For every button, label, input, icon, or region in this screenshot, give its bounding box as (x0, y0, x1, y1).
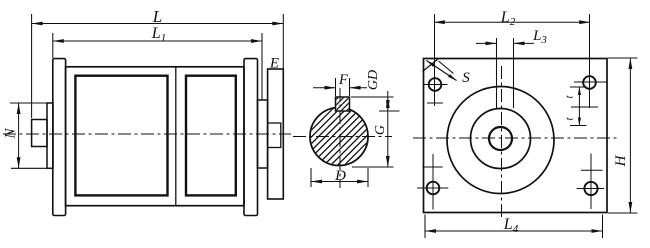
svg-text:G: G (373, 125, 388, 135)
right bearing hub (258, 100, 268, 168)
bore step dimension ticks t (570, 87, 587, 126)
svg-text:N: N (3, 128, 19, 140)
dimension H extension lines (608, 58, 638, 213)
spigot circle (large) (447, 87, 554, 194)
centerline of left view (3, 133, 291, 135)
motor body outline (66, 67, 244, 206)
shaft section centerlines (293, 88, 392, 188)
left shaft stub (32, 120, 47, 147)
svg-text:S: S (462, 70, 470, 86)
svg-text:t: t (564, 95, 576, 99)
keyway on shaft (width F) (323, 68, 363, 140)
dimension D extension lines (311, 168, 368, 187)
dimension N extension lines (10, 103, 52, 168)
dimension D (311, 168, 368, 184)
dimension L2 (434, 9, 590, 28)
dimension L1 extension lines (53, 33, 262, 100)
rear shaft stub through disc (268, 123, 281, 148)
dimension L extension lines (32, 14, 284, 118)
dimension L4 extension lines (425, 215, 603, 239)
corner chamfer line (423, 59, 439, 72)
left end-bracket column (53, 59, 66, 216)
dimension H (613, 58, 632, 213)
svg-text:E: E (269, 56, 279, 72)
svg-text:L2: L2 (500, 9, 516, 28)
dimension L3 extension lines (497, 38, 514, 108)
right stator panel (186, 76, 236, 196)
left stator panel (75, 76, 167, 196)
left bearing hub (diameter N) (47, 103, 53, 168)
dimension GD/G extension ticks (351, 97, 400, 167)
svg-text:D: D (334, 168, 346, 184)
flange centerlines (413, 66, 619, 219)
right end-bracket column (244, 59, 258, 216)
svg-text:L4: L4 (503, 216, 519, 235)
svg-text:H: H (613, 154, 629, 167)
svg-text:L1: L1 (151, 25, 166, 44)
shaft section circle with hatching (299, 15, 379, 248)
flange plate outline (424, 59, 608, 213)
shaft bore circle (small) (489, 127, 512, 150)
svg-text:L: L (152, 7, 162, 26)
bottom-left bolt hole with center marks (417, 154, 448, 210)
dimension L3 (476, 28, 547, 46)
dimension N (3, 103, 21, 168)
rear disc (width E) (268, 69, 284, 199)
body seam line (175, 67, 177, 206)
chamfer leader S with arrows (427, 61, 471, 87)
dimension F (313, 72, 367, 90)
svg-text:L3: L3 (532, 28, 547, 46)
dimension F extension lines (336, 78, 350, 96)
bottom-right bolt hole with center marks (577, 154, 604, 210)
dimension L1 (53, 25, 262, 44)
svg-text:GD: GD (366, 70, 381, 90)
dimension L (32, 7, 284, 26)
dimension L4 (425, 216, 603, 235)
top-right bolt hole with center marks (574, 14, 607, 108)
bearing boss circle (middle) (471, 109, 531, 169)
top-left bolt hole with center marks (423, 14, 448, 106)
dimension line GD and G (366, 70, 390, 167)
bore step dimension line (564, 87, 582, 126)
label E (269, 56, 279, 72)
svg-text:t: t (564, 117, 576, 121)
svg-text:F: F (338, 72, 349, 88)
